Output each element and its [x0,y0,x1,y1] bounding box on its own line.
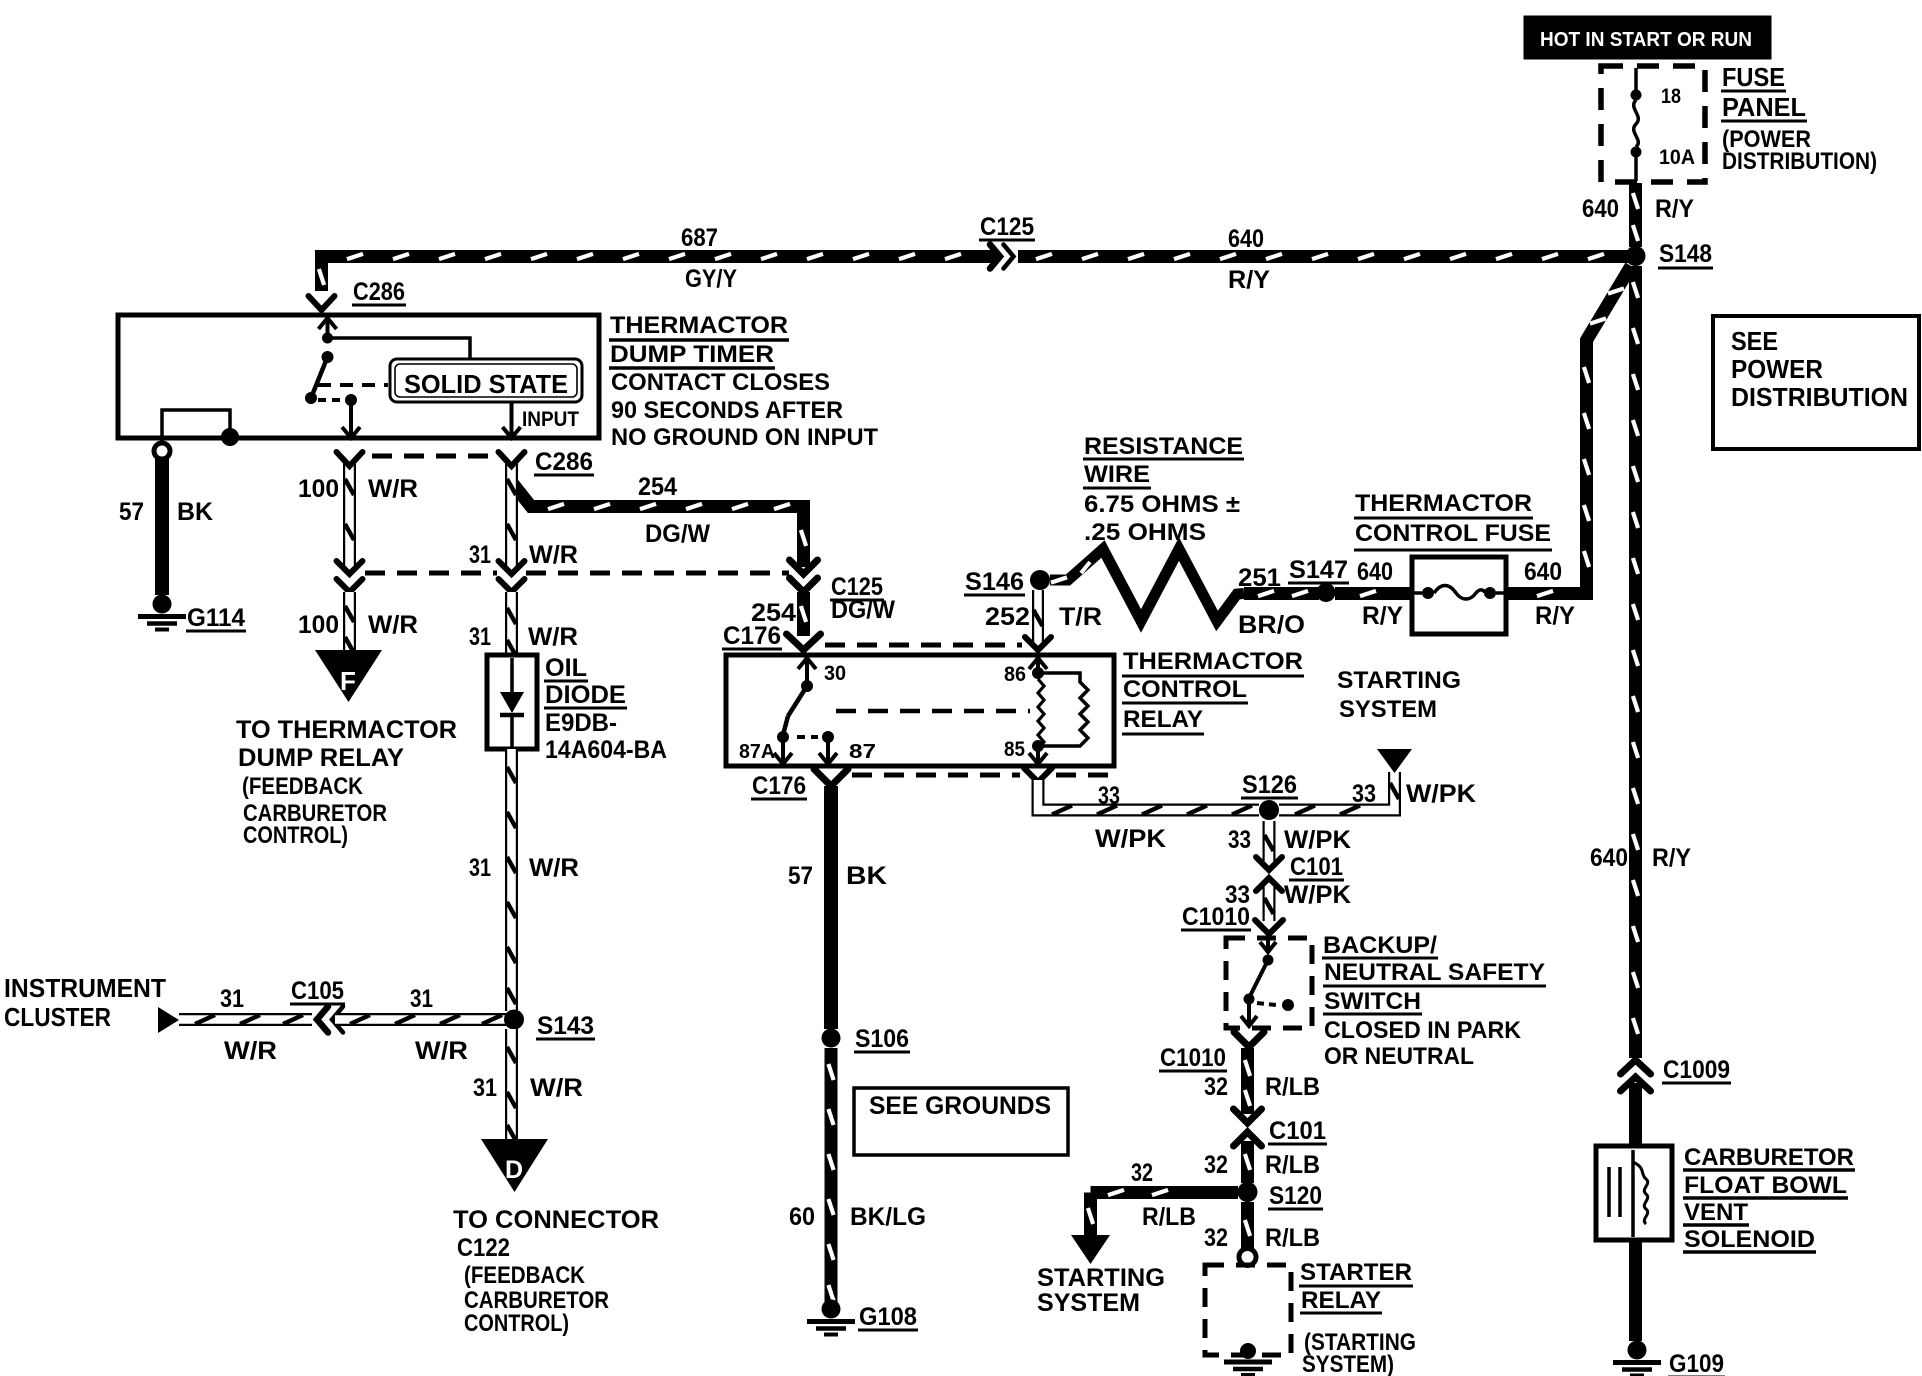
svg-text:32: 32 [1204,1224,1228,1252]
svg-text:SEE: SEE [1731,326,1778,356]
svg-text:R/LB: R/LB [1265,1073,1320,1101]
svg-text:SYSTEM): SYSTEM) [1302,1351,1394,1376]
svg-text:CONTACT CLOSES: CONTACT CLOSES [611,369,830,396]
backup switch arm [1250,960,1268,996]
wire 254 DG/W from C286 to C125 [512,466,798,507]
svg-text:STARTING: STARTING [1037,1264,1165,1292]
svg-text:SYSTEM: SYSTEM [1037,1289,1140,1317]
svg-text:SOLID STATE: SOLID STATE [404,369,568,399]
svg-text:NEUTRAL SAFETY: NEUTRAL SAFETY [1324,959,1545,986]
dump timer dashed link to arm [318,398,342,402]
wire 254 DG/W C125 to relay [797,592,810,636]
wire 640 R/Y S148 diagonal branch [1586,266,1631,341]
ground G114 [153,595,172,614]
relay switch arm [788,686,807,716]
box SEE GROUNDS [854,1088,1068,1155]
relay pin 86 arrow [1036,658,1040,670]
svg-text:C1009: C1009 [1663,1056,1730,1084]
splice S143 [504,1010,524,1030]
connector C176 chevron on 57 BK [814,769,848,786]
wire 100 W/R lower [343,592,356,651]
connector row dashed line y775 [852,773,1020,778]
solid state INPUT arrow [510,402,514,438]
svg-text:NO GROUND ON INPUT: NO GROUND ON INPUT [611,424,878,451]
svg-text:687: 687 [681,224,718,252]
svg-text:CONTROL): CONTROL) [464,1310,569,1337]
svg-text:90 SECONDS AFTER: 90 SECONDS AFTER [611,397,843,424]
svg-text:TO CONNECTOR: TO CONNECTOR [453,1206,659,1234]
svg-text:DIODE: DIODE [545,681,626,709]
wire 33 W/PK relay to S126 [1038,780,1259,810]
svg-text:640: 640 [1582,195,1619,223]
svg-text:C101: C101 [1269,1117,1326,1145]
instrument cluster arrow [158,1007,179,1033]
svg-text:W/R: W/R [224,1037,277,1065]
svg-text:E9DB-: E9DB- [545,709,617,737]
wire 31 W/R upper [505,462,518,567]
svg-text:G109: G109 [1669,1350,1724,1376]
svg-text:C176: C176 [723,622,781,650]
backup neutral safety switch box [1226,938,1312,1028]
svg-text:G114: G114 [187,604,245,632]
svg-text:T/R: T/R [1059,603,1102,631]
connector chevrons on 31 W/R at y573 [499,561,525,574]
svg-text:DUMP TIMER: DUMP TIMER [610,341,774,368]
svg-text:R/Y: R/Y [1535,602,1575,630]
svg-text:W/PK: W/PK [1284,826,1351,854]
svg-text:R/LB: R/LB [1142,1203,1196,1231]
fuse F18 10A symbol [1634,68,1638,90]
wire C1009 to solenoid [1629,1083,1642,1148]
dump timer ground loop [162,410,230,446]
wire 252 T/R S146 down [1032,590,1044,642]
svg-text:F: F [340,666,356,696]
dump timer switch output arrow [349,404,353,438]
svg-text:640: 640 [1228,225,1264,253]
wire 640 R/Y fuse panel to S148 [1629,183,1642,247]
svg-text:W/PK: W/PK [1284,881,1351,909]
ground G108 [822,1300,841,1319]
connector C101 symbol (32 wire) [1234,1109,1262,1123]
wire 33 W/PK C101 to C1010 [1263,886,1276,921]
svg-text:DISTRIBUTION: DISTRIBUTION [1731,382,1908,412]
svg-text:G108: G108 [859,1303,917,1331]
wire 687 GY/Y horizontal [315,250,328,291]
splice S126 [1259,800,1279,820]
svg-text:CLUSTER: CLUSTER [4,1002,111,1032]
connector C1009 symbol [1621,1060,1651,1074]
dump timer output circle [154,443,170,459]
svg-text:C1010: C1010 [1182,903,1250,931]
svg-text:87A: 87A [739,741,775,763]
resistance wire zigzag [1050,549,1244,621]
ground G109 [1628,1341,1647,1360]
thermactor dump timer box [118,315,599,438]
connector C286 symbol (top) [309,296,335,310]
dump timer switch arm [311,357,328,398]
svg-text:100: 100 [298,475,339,503]
svg-text:CONTROL FUSE: CONTROL FUSE [1355,520,1551,547]
svg-text:BR/O: BR/O [1238,611,1305,639]
svg-text:CONTROL: CONTROL [1123,676,1247,703]
svg-text:87: 87 [849,741,876,763]
svg-text:254: 254 [638,473,677,501]
svg-text:DG/W: DG/W [831,596,895,624]
wire 32 R/LB C1010 to C101 [1241,1048,1254,1114]
dump timer switch contact dots [322,333,333,344]
svg-text:R/Y: R/Y [1362,602,1403,630]
svg-text:(FEEDBACK: (FEEDBACK [242,773,364,800]
power source banner HOT IN START OR RUN [1524,16,1771,59]
svg-text:C286: C286 [535,448,593,476]
svg-text:OIL: OIL [545,654,587,682]
wire 31 W/R diode to S143 [505,749,518,1011]
svg-text:C286: C286 [353,278,405,306]
dump timer pin arrow (top input) [326,318,330,335]
svg-text:C1010: C1010 [1160,1044,1226,1072]
svg-text:S106: S106 [855,1025,909,1053]
wire 31 W/R to oil diode [505,592,518,656]
wire 57 BK to G114 [155,459,169,595]
svg-text:BK/LG: BK/LG [850,1203,926,1231]
connector C101 symbol (33 wire) [1256,857,1282,870]
thermactor control fuse element [1412,591,1422,595]
thermactor control fuse box [1412,557,1506,634]
diode symbol [510,658,514,694]
svg-text:85: 85 [1004,738,1025,761]
svg-text:S147: S147 [1289,556,1348,584]
wire 31 W/R instrument cluster right [335,1013,506,1026]
svg-text:DG/W: DG/W [645,520,710,548]
connector C125 chevrons on DG/W [790,560,818,574]
svg-text:86: 86 [1004,663,1026,686]
relay pin 85 arrow [1032,740,1044,752]
splice S147 [1317,583,1336,602]
starting system arrowhead (32 branch) [1071,1235,1110,1264]
svg-text:DUMP RELAY: DUMP RELAY [238,744,404,772]
svg-text:THERMACTOR: THERMACTOR [1355,490,1532,517]
svg-text:W/PK: W/PK [1406,780,1476,808]
svg-text:S120: S120 [1269,1182,1322,1210]
svg-text:CARBURETOR: CARBURETOR [1684,1144,1854,1171]
svg-text:R/Y: R/Y [1655,195,1694,223]
relay pin 87A arrow [781,742,785,764]
svg-text:POWER: POWER [1731,354,1823,384]
starter relay internal ground [1240,1343,1256,1359]
connector C1010 chevron (bottom) [1234,1032,1264,1047]
svg-text:RELAY: RELAY [1123,706,1203,733]
svg-text:S143: S143 [537,1012,594,1040]
svg-text:RESISTANCE: RESISTANCE [1084,433,1243,460]
svg-text:640: 640 [1524,558,1562,586]
dump timer dashed link to solid state [318,383,388,387]
svg-text:31: 31 [220,985,244,1013]
connector row dashed line y645 [825,643,1022,648]
relay pin 30 arrow [805,658,809,686]
svg-text:.25 OHMS: .25 OHMS [1084,519,1206,546]
svg-text:W/R: W/R [528,623,578,651]
svg-text:C101: C101 [1290,853,1343,881]
wire 31 W/R S143 to connector C122 [505,1029,518,1140]
connector C125 symbol (in-line, top) [990,245,1000,269]
svg-text:6.75 OHMS ±: 6.75 OHMS ± [1084,491,1240,518]
wire 57 BK relay down [824,786,838,1029]
wire 640 R/Y S148 down to C1009 [1629,266,1642,1058]
svg-text:W/PK: W/PK [1095,825,1166,853]
starter relay box (dashed) [1205,1265,1291,1355]
svg-text:OR NEUTRAL: OR NEUTRAL [1324,1043,1474,1070]
svg-text:SWITCH: SWITCH [1324,988,1421,1015]
svg-text:WIRE: WIRE [1084,461,1150,488]
svg-text:SYSTEM: SYSTEM [1339,696,1437,723]
wire 31 W/R instrument cluster left [179,1013,312,1026]
svg-text:BK: BK [177,498,213,526]
svg-text:C176: C176 [752,772,806,800]
svg-text:14A604-BA: 14A604-BA [545,736,667,764]
svg-text:W/R: W/R [529,854,579,882]
relay mid dashed line [836,709,1030,714]
svg-text:RELAY: RELAY [1301,1287,1381,1314]
svg-text:R/Y: R/Y [1228,266,1270,294]
svg-text:W/R: W/R [415,1037,468,1065]
svg-text:10A: 10A [1659,146,1695,169]
svg-text:31: 31 [469,541,491,569]
splice S106 [822,1029,841,1048]
carburetor float bowl vent solenoid box [1596,1146,1672,1240]
svg-text:W/R: W/R [529,541,578,569]
svg-text:32: 32 [1204,1151,1228,1179]
svg-text:31: 31 [410,985,433,1013]
svg-text:SEE GROUNDS: SEE GROUNDS [869,1092,1051,1120]
connector C105 symbol [317,1007,328,1033]
connector chevrons on 100 W/R at y573 [337,561,363,574]
wire 32 R/LB S120 to starter relay [1241,1202,1254,1248]
backup switch dashed link [1257,1003,1276,1005]
fuse panel (dashed box) [1601,66,1705,182]
svg-text:60: 60 [789,1203,815,1231]
svg-text:SOLENOID: SOLENOID [1684,1226,1815,1253]
svg-text:STARTING: STARTING [1337,667,1461,694]
svg-text:PANEL: PANEL [1722,92,1806,122]
svg-text:100: 100 [298,611,339,639]
connector row dashed line y573 [365,571,497,576]
arrow F to thermactor dump relay [315,650,382,702]
svg-text:57: 57 [119,498,144,526]
connector chevron on 33 wire (pin 85) [1024,768,1052,782]
wire 32 R/LB C101 to S120 [1241,1141,1254,1183]
relay pin 87 arrow [826,742,830,764]
connector C176 chevron on DG/W [787,634,821,650]
svg-text:32: 32 [1204,1073,1228,1101]
svg-text:18: 18 [1661,85,1681,108]
wire 32 R/LB branch to starting system [1091,1186,1239,1199]
svg-text:33: 33 [1098,782,1120,810]
connector C1010 chevron (top) [1255,920,1283,934]
svg-text:CONTROL): CONTROL) [243,822,348,849]
svg-text:R/LB: R/LB [1265,1224,1320,1252]
svg-text:D: D [505,1156,523,1184]
thermactor control relay box [726,655,1114,766]
splice S146 [1030,570,1050,590]
wire 100 W/R upper [343,462,356,567]
box SEE POWER DISTRIBUTION [1713,316,1919,449]
oil diode box [487,655,537,749]
svg-text:57: 57 [788,862,813,890]
svg-text:252: 252 [985,603,1030,631]
svg-text:C122: C122 [457,1234,510,1262]
svg-text:30: 30 [824,662,846,685]
wire solenoid to G109 [1629,1240,1642,1341]
wire 33 W/PK S126 down [1263,821,1276,861]
svg-text:GY/Y: GY/Y [685,265,737,293]
svg-text:33: 33 [1228,826,1251,854]
svg-text:VENT: VENT [1684,1199,1748,1226]
starter relay input circle [1239,1249,1256,1266]
svg-text:FLOAT BOWL: FLOAT BOWL [1684,1172,1847,1199]
wire 640 R/Y S147 to fuse [1335,587,1412,600]
dump timer wire to solid state [328,338,471,359]
backup switch output arrow [1247,1002,1251,1026]
svg-text:32: 32 [1131,1159,1153,1187]
svg-text:S126: S126 [1242,771,1297,799]
splice S148 [1626,246,1646,266]
wire 33 W/PK S126 to starting system [1279,772,1395,810]
svg-text:FUSE: FUSE [1722,62,1785,92]
svg-text:640: 640 [1357,558,1393,586]
splice S120 [1238,1182,1258,1202]
svg-text:(FEEDBACK: (FEEDBACK [464,1262,586,1289]
solid state box [390,359,582,402]
relay coil left [1038,679,1044,749]
svg-text:THERMACTOR: THERMACTOR [1123,648,1303,675]
svg-text:31: 31 [469,623,491,651]
svg-text:W/R: W/R [368,611,418,639]
wire 640 R/Y C125 to S148 [1018,250,1630,263]
svg-text:S148: S148 [1659,240,1712,268]
svg-text:INSTRUMENT: INSTRUMENT [4,973,166,1003]
svg-text:C125: C125 [980,213,1034,241]
svg-text:HOT IN START OR RUN: HOT IN START OR RUN [1540,29,1752,51]
svg-text:33: 33 [1352,780,1376,808]
svg-text:640: 640 [1590,844,1628,872]
starting system triangle (33 W/PK) [1377,749,1412,773]
svg-text:BACKUP/: BACKUP/ [1323,932,1437,959]
svg-text:INPUT: INPUT [522,408,579,431]
connector C286 row (below timer) [337,452,363,466]
wire 60 BK/LG S106 to G108 [825,1048,838,1302]
relay coil right [1038,673,1088,746]
svg-text:S146: S146 [965,568,1024,596]
svg-text:TO THERMACTOR: TO THERMACTOR [236,716,457,744]
solenoid internals [1631,1150,1635,1237]
svg-text:R/Y: R/Y [1652,844,1691,872]
svg-text:STARTER: STARTER [1300,1259,1412,1286]
connector chevron on 252 wire [1025,637,1051,650]
relay dashed link [797,735,818,739]
arrow D to connector C122 [481,1139,548,1192]
svg-text:31: 31 [469,854,491,882]
svg-text:31: 31 [473,1074,497,1102]
svg-text:W/R: W/R [368,475,418,503]
svg-text:W/R: W/R [530,1074,583,1102]
svg-text:C105: C105 [291,977,344,1005]
svg-text:CLOSED IN PARK: CLOSED IN PARK [1324,1017,1522,1044]
wire 251 BR/O to S147 [1244,587,1319,600]
svg-text:DISTRIBUTION): DISTRIBUTION) [1722,148,1877,175]
backup switch input arrow [1266,938,1270,952]
svg-text:BK: BK [846,862,887,890]
svg-text:R/LB: R/LB [1265,1151,1320,1179]
svg-text:THERMACTOR: THERMACTOR [610,312,788,339]
